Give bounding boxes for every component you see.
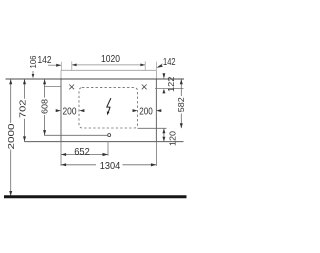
svg-text:142: 142 bbox=[163, 56, 176, 68]
arrow 106 down bbox=[32, 74, 35, 78]
702 dimension line bbox=[24, 79, 26, 99]
extension tick hanger1 top bbox=[71, 61, 73, 70]
arrow 200R outside right bbox=[156, 109, 161, 112]
652 dimension line bbox=[61, 154, 108, 156]
svg-text:200: 200 bbox=[139, 106, 153, 118]
svg-text:122: 122 bbox=[166, 76, 176, 92]
svg-text:1304: 1304 bbox=[100, 160, 121, 172]
106 dimension pointer bbox=[32, 71, 34, 74]
mirror right edge bbox=[155, 70, 157, 79]
extension line mirror-left bottom bbox=[60, 142, 62, 166]
svg-text:142: 142 bbox=[38, 54, 52, 66]
mirror left edge bbox=[60, 70, 62, 79]
extension line mirror-right bottom bbox=[155, 142, 157, 166]
arrow 2000 down at floor bbox=[9, 191, 12, 196]
extension tick mirror-left top bbox=[60, 62, 62, 70]
arrow 1304 left bbox=[61, 163, 66, 166]
mirror top edge bbox=[61, 69, 156, 71]
svg-text:582: 582 bbox=[176, 97, 186, 112]
dashed electrical zone box bbox=[79, 88, 138, 128]
582 dimension line bbox=[180, 79, 182, 96]
arrow 142R at mirror right bbox=[156, 65, 163, 68]
arrow 702 down bbox=[23, 136, 26, 141]
extension tick mirror-right top bbox=[155, 62, 157, 70]
arrow 582 up bbox=[180, 79, 183, 84]
top dimension line 1020 bbox=[72, 64, 145, 66]
120 dimension line bbox=[163, 129, 165, 142]
svg-text:702: 702 bbox=[18, 99, 28, 118]
hanger mounting line bbox=[6, 78, 185, 80]
arrow 142L at mirror left bbox=[56, 64, 61, 67]
arrow 1020 left bbox=[72, 64, 77, 67]
arrow 200R outside left bbox=[133, 109, 138, 112]
right mounting cross bbox=[142, 85, 147, 90]
top-right 142 leader line bbox=[158, 64, 163, 67]
extension line center bottom bbox=[107, 142, 109, 156]
top-left 142 leader line bbox=[48, 64, 61, 66]
arrow 702 up bbox=[23, 79, 26, 84]
mirror bottom edge / bottom reference line bbox=[24, 141, 183, 143]
svg-text:120: 120 bbox=[168, 131, 178, 146]
lightning bolt electrical symbol bbox=[107, 98, 111, 113]
arrow 582 down bbox=[180, 123, 183, 128]
extension tick hanger2 top bbox=[144, 61, 146, 70]
cable exit circle bbox=[108, 134, 111, 137]
608 dimension line bbox=[44, 79, 46, 97]
arrow 200L outside left bbox=[56, 109, 61, 112]
left mounting cross bbox=[69, 85, 74, 90]
svg-text:608: 608 bbox=[40, 99, 50, 114]
arrow 1020 right bbox=[140, 64, 145, 67]
arrow 652 left bbox=[61, 153, 66, 156]
arrow 122 up to cross line bbox=[162, 89, 165, 94]
lightning bolt arrowhead bbox=[107, 111, 110, 115]
dimension texts rotated bbox=[6, 55, 186, 149]
arrow 120 down bbox=[162, 137, 165, 142]
svg-text:106: 106 bbox=[28, 55, 38, 68]
arrow 122 down to hanger line bbox=[163, 73, 166, 79]
cross level extension line left bbox=[44, 85, 61, 87]
arrow 2000 up bbox=[9, 79, 12, 84]
svg-text:2000: 2000 bbox=[6, 123, 16, 149]
arrow 1304 right bbox=[151, 163, 157, 166]
arrow 608 up bbox=[43, 79, 46, 84]
arrow 200L outside right bbox=[79, 109, 84, 112]
dashed box bottom solid extension right bbox=[138, 127, 167, 129]
svg-text:652: 652 bbox=[74, 146, 90, 158]
2000 dimension line bbox=[10, 79, 12, 123]
svg-text:200: 200 bbox=[63, 106, 77, 118]
arrow 608 down bbox=[43, 130, 46, 135]
1304 dimension line bbox=[61, 164, 96, 166]
dimension texts horizontal bbox=[38, 53, 176, 172]
cable exit line bbox=[44, 134, 108, 136]
svg-text:1020: 1020 bbox=[101, 53, 120, 65]
arrow 120 up bbox=[162, 129, 165, 134]
arrow 652 right bbox=[103, 153, 109, 156]
arrowheads bbox=[9, 64, 183, 197]
floor line bbox=[4, 195, 187, 198]
cross level extension line right bbox=[155, 87, 184, 89]
